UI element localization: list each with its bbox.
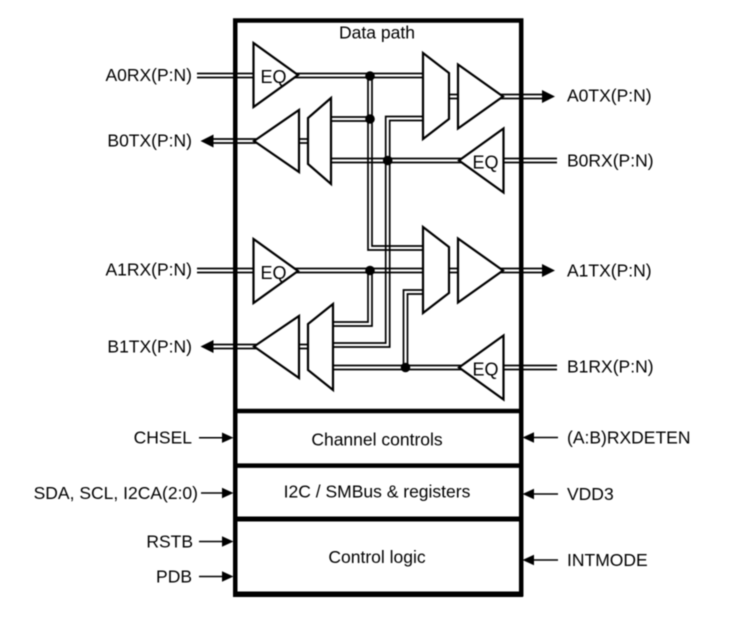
wire A0RX input pair (left label to A0 mux) <box>197 74 423 78</box>
svg-text:SDA, SCL, I2CA(2:0): SDA, SCL, I2CA(2:0) <box>34 483 198 503</box>
op-amp EQ equalizer B1RX <box>459 336 504 400</box>
mux B0 (2:1 crossbar mux, left-pointing trapezoid) <box>308 98 331 184</box>
arrowhead B1TX output (points left) <box>201 340 214 353</box>
wire RXDETEN control line <box>532 437 558 439</box>
svg-text:RSTB: RSTB <box>146 532 193 552</box>
svg-text:A0RX(P:N): A0RX(P:N) <box>105 65 192 85</box>
svg-text:EQ: EQ <box>261 263 287 283</box>
node junction dot on A0RX line at V1 <box>365 71 375 81</box>
svg-text:Channel controls: Channel controls <box>311 430 443 450</box>
svg-text:A1RX(P:N): A1RX(P:N) <box>105 260 192 280</box>
wire PDB control line <box>199 576 224 578</box>
svg-text:A0TX(P:N): A0TX(P:N) <box>567 86 652 106</box>
svg-text:A1TX(P:N): A1TX(P:N) <box>567 261 652 281</box>
node junction dot on B0 mux top input at V1 <box>365 114 375 124</box>
svg-text:Control logic: Control logic <box>328 547 426 567</box>
svg-text:Data path: Data path <box>339 23 415 43</box>
svg-text:B1RX(P:N): B1RX(P:N) <box>567 357 654 377</box>
wire vertical crossover V1' (A1RX node down to B1 mux top input) <box>333 271 372 326</box>
wire vertical crossover V1 with corner to A1 mux top input <box>368 76 423 250</box>
mux A0 (2:1 crossbar mux, right-pointing trapezoid) <box>423 53 449 139</box>
op-amp EQ equalizer A0RX <box>254 43 299 107</box>
node junction dot on B1RX line at V3 <box>401 363 411 373</box>
svg-text:VDD3: VDD3 <box>567 484 614 504</box>
divider I2C registers / Control logic <box>233 517 523 522</box>
svg-text:I2C / SMBus & registers: I2C / SMBus & registers <box>284 482 471 502</box>
svg-text:(A:B)RXDETEN: (A:B)RXDETEN <box>567 428 690 448</box>
mux A1 (3:1 crossbar mux, right-pointing trapezoid) <box>423 227 449 313</box>
outer box Data path + control stack <box>235 21 521 595</box>
wire B0TX output pair (B0 mux through triangle to left arrow) <box>208 139 308 143</box>
wire A0TX output pair (A0 mux through triangle to right arrow) <box>449 95 545 99</box>
mux B1 (3:1 crossbar mux, left-pointing trapezoid) <box>308 304 333 390</box>
arrowhead CHSEL (points right into box) <box>222 433 234 443</box>
arrowhead PDB (points right into box) <box>222 571 234 581</box>
wire vertical crossover V3 (A1 mux bottom input down to B1RX node) <box>404 290 424 368</box>
arrowhead B0TX output (points left) <box>201 135 214 148</box>
wire B1TX output pair (B1 mux through triangle to left arrow) <box>208 345 308 349</box>
arrowhead SDA/SCL (points right into box) <box>222 488 234 498</box>
svg-text:EQ: EQ <box>261 67 287 87</box>
wire SDA/SCL control line <box>201 492 224 494</box>
wire INTMODE control line <box>532 559 558 561</box>
op-amp EQ equalizer B0RX <box>459 129 504 193</box>
arrowhead RXDETEN (points left into box) <box>523 432 535 442</box>
buffer output driver A0TX <box>458 65 503 129</box>
wire RSTB control line <box>199 541 224 543</box>
wire B0RX input pair (right label through EQ to B0 mux) <box>331 159 557 163</box>
arrowhead A1TX output (points right) <box>542 264 555 277</box>
buffer output driver B0TX (left-pointing) <box>254 110 299 172</box>
svg-text:CHSEL: CHSEL <box>134 428 193 448</box>
svg-text:EQ: EQ <box>473 360 499 380</box>
node junction dot on A1RX line at V1' <box>365 266 375 276</box>
buffer output driver A1TX <box>458 239 503 303</box>
wire B1RX input pair (right label through EQ to B1 mux) <box>333 366 557 370</box>
wire VDD3 control line <box>532 493 558 495</box>
arrowhead INTMODE (points left into box) <box>523 555 535 565</box>
svg-text:B0TX(P:N): B0TX(P:N) <box>107 131 192 151</box>
arrowhead VDD3 (points left into box) <box>523 489 535 499</box>
node junction dot on B0RX line at V2 <box>383 156 393 166</box>
arrowhead A0TX output (points right) <box>542 90 555 103</box>
svg-text:INTMODE: INTMODE <box>567 550 648 570</box>
divider Channel controls / I2C registers <box>233 463 523 468</box>
svg-text:PDB: PDB <box>156 567 192 587</box>
svg-text:EQ: EQ <box>473 153 499 173</box>
wire CHSEL control line <box>199 437 224 439</box>
wire vertical crossover V2 (A0 mux bottom input to B1 mux middle input) <box>333 117 423 348</box>
wire B0 mux top input stub (from mux to node on V1) <box>331 117 370 121</box>
op-amp EQ equalizer A1RX <box>254 239 299 303</box>
svg-text:B0RX(P:N): B0RX(P:N) <box>567 151 654 171</box>
wire A1RX input pair (left label to A1 mux) <box>197 269 423 273</box>
arrowhead RSTB (points right into box) <box>222 536 234 546</box>
divider Data path / Channel controls <box>233 409 523 414</box>
svg-text:B1TX(P:N): B1TX(P:N) <box>107 337 192 357</box>
wire A1TX output pair (A1 mux through triangle to right arrow) <box>449 269 545 273</box>
wire bottom edge emphasis <box>233 591 523 597</box>
buffer output driver B1TX (left-pointing) <box>254 316 299 378</box>
